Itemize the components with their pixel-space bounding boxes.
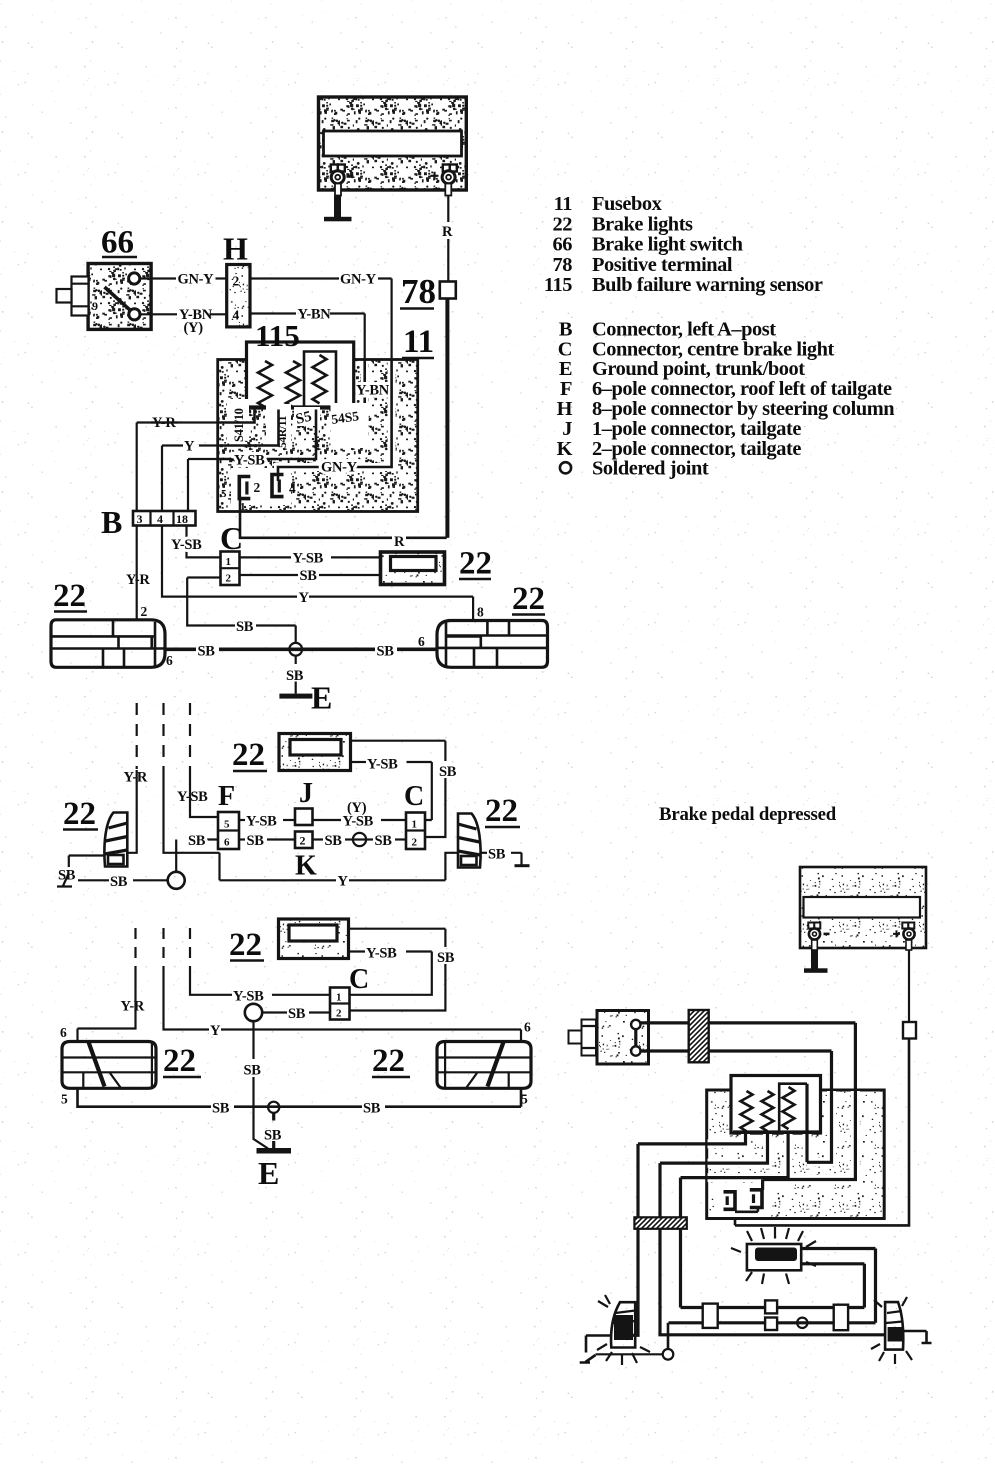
svg-text:S41/10: S41/10 xyxy=(232,408,246,442)
wire Y to connector B pin 4 xyxy=(162,439,218,512)
svg-text:2: 2 xyxy=(254,480,261,495)
svg-text:11: 11 xyxy=(403,324,434,360)
wire Y-BN H to sensor (depressed) xyxy=(709,1051,832,1162)
svg-text:SB: SB xyxy=(439,764,457,780)
battery (depressed view) xyxy=(800,867,926,948)
svg-text:Y: Y xyxy=(299,590,310,606)
svg-text:K: K xyxy=(295,851,317,882)
svg-text:SB: SB xyxy=(300,568,318,584)
wire centre lamp feed from upper bus (depressed) xyxy=(801,1264,864,1308)
bulb failure sensor 115 (depressed) xyxy=(731,1076,821,1134)
left rear lamp lit (depressed) xyxy=(597,1295,650,1365)
svg-text:5: 5 xyxy=(221,488,227,500)
svg-text:C: C xyxy=(558,338,572,360)
svg-text:Brake lights: Brake lights xyxy=(592,213,693,235)
svg-text:6: 6 xyxy=(166,653,173,668)
svg-text:2: 2 xyxy=(300,834,306,848)
svg-text:Y-SB: Y-SB xyxy=(366,946,397,962)
resistor 2 xyxy=(286,361,300,407)
svg-text:SB: SB xyxy=(110,874,128,890)
SB ground bus (bottom section) xyxy=(78,1088,522,1116)
battery / positive terminal 78 xyxy=(319,97,467,190)
soldered joint (depressed bus) xyxy=(797,1318,807,1328)
svg-text:Y-SB: Y-SB xyxy=(246,814,277,830)
wire joint up to lower bus (depressed) xyxy=(667,1323,670,1349)
wire centre lamp ground to lower bus (depressed) xyxy=(801,1249,875,1323)
centre brake light 22 (top section) xyxy=(381,546,493,585)
dashed wire Y-R continuation (bottom section) xyxy=(134,928,136,966)
svg-text:Positive terminal: Positive terminal xyxy=(592,254,733,276)
connector H (depressed) xyxy=(689,1010,709,1062)
svg-text:Y-SB: Y-SB xyxy=(367,757,398,773)
connector C (bottom section) xyxy=(330,964,369,1020)
svg-text:6–pole connector, roof left of: 6–pole connector, roof left of tailgate xyxy=(592,378,892,400)
svg-text:Y-SB: Y-SB xyxy=(234,453,265,469)
soldered joint on bottom bus xyxy=(264,1102,282,1149)
dashed wire Y-SB continuation (middle section) xyxy=(189,703,191,772)
connector B (left A-post) xyxy=(101,504,196,540)
wire R battery to fuse 78 xyxy=(442,184,453,282)
svg-text:GN-Y: GN-Y xyxy=(340,272,377,288)
svg-text:Y-R: Y-R xyxy=(121,999,145,1015)
svg-text:22: 22 xyxy=(229,927,262,963)
wire Y-SB centre lamp (middle) to C1 xyxy=(351,757,432,821)
fuse contact pair (depressed) xyxy=(724,1180,763,1212)
ground stake at battery negative xyxy=(324,184,352,222)
wire Y fusebox terminal xyxy=(218,410,279,446)
svg-text:22: 22 xyxy=(163,1043,196,1079)
svg-text:SB: SB xyxy=(212,1101,230,1117)
wire Y-BN H to fusebox xyxy=(250,307,365,360)
svg-text:B: B xyxy=(101,504,122,540)
wire Y-SB B18 to connector C pin 1 xyxy=(171,526,221,558)
connector H (8-pole, steering column) xyxy=(223,231,250,327)
centre brake light 22 (middle section) xyxy=(232,734,351,774)
soldered joint on bus xyxy=(289,643,302,656)
connector K (2-pole) xyxy=(295,832,317,882)
svg-text:SB: SB xyxy=(325,833,343,849)
wire Y-SB to C1 (bottom) xyxy=(190,977,330,1005)
resistor 3 (depressed) xyxy=(783,1087,795,1129)
svg-text:GN-Y: GN-Y xyxy=(178,272,215,288)
wire Y-BN inside fusebox xyxy=(337,359,390,443)
wire GN-Y H to fusebox xyxy=(250,272,392,360)
wire R from fuse contact to battery feed xyxy=(240,299,447,551)
wire Y B4 to right lamp pin 8 xyxy=(162,526,484,622)
connector K (depressed) xyxy=(765,1318,777,1331)
wire Y-SB F5 to J xyxy=(239,814,295,830)
svg-text:Y: Y xyxy=(184,439,195,455)
svg-text:115: 115 xyxy=(255,318,300,353)
svg-text:Soldered joint: Soldered joint xyxy=(592,458,709,480)
svg-text:F: F xyxy=(218,781,235,812)
fuse contact 2 in fusebox xyxy=(272,475,296,497)
SB ground bus (top section) xyxy=(165,634,437,668)
terminal wells xyxy=(227,399,368,448)
wire SB C2 down to ground bus xyxy=(187,578,296,644)
svg-text:H: H xyxy=(557,398,573,420)
svg-text:Brake pedal depressed: Brake pedal depressed xyxy=(659,804,837,825)
svg-text:22: 22 xyxy=(459,546,492,582)
wire SB centre lamp ground drop (bottom) xyxy=(244,1021,269,1148)
dashed wire Y continuation (bottom section) xyxy=(162,928,164,972)
svg-text:22: 22 xyxy=(372,1043,405,1079)
ground point E (top section) xyxy=(279,656,332,716)
soldered joint circle (middle) xyxy=(168,872,185,889)
left brake light 22 (top section) xyxy=(51,578,165,667)
connector F (depressed) xyxy=(703,1304,718,1328)
right side lamp 22 (middle section) xyxy=(458,793,520,868)
wire right lamp to chassis ground (depressed) xyxy=(903,1331,932,1343)
svg-text:SB: SB xyxy=(247,833,265,849)
fuse contact 1 in fusebox xyxy=(221,477,261,514)
resistor 1 xyxy=(258,361,272,407)
svg-text:Brake light switch: Brake light switch xyxy=(592,234,744,256)
white clearance for fusebox wires (depressed) xyxy=(708,1091,856,1217)
centre brake light 22 (bottom section) xyxy=(229,919,349,963)
svg-text:C: C xyxy=(404,781,424,812)
svg-text:E: E xyxy=(559,358,572,380)
wire Y mirror to right rear lamp (depressed) xyxy=(660,1133,885,1335)
ground point E (bottom section) xyxy=(257,1148,292,1191)
connector C (depressed) xyxy=(834,1305,848,1331)
svg-text:6: 6 xyxy=(224,837,230,849)
svg-text:78: 78 xyxy=(401,272,436,311)
svg-text:R: R xyxy=(442,224,453,240)
wire GN-Y H to fusebox (depressed) xyxy=(709,1023,856,1180)
connector J (1-pole) xyxy=(295,778,313,825)
svg-text:4: 4 xyxy=(233,308,240,323)
fuse 78 xyxy=(400,272,456,311)
wire Y-SB J to C1 (middle) xyxy=(313,800,407,830)
wire Y-SB C1 to centre brake light xyxy=(240,551,381,567)
centre brake light lit (depressed) xyxy=(731,1227,816,1284)
svg-text:R: R xyxy=(394,534,405,550)
svg-text:SB: SB xyxy=(288,1006,306,1022)
wire SB ground to joint (depressed) xyxy=(596,1353,663,1355)
svg-text:C: C xyxy=(349,964,369,995)
svg-text:SB: SB xyxy=(377,644,395,660)
svg-text:Y-SB: Y-SB xyxy=(171,537,202,553)
svg-text:Connector, centre brake light: Connector, centre brake light xyxy=(592,338,834,360)
wire SB centre lamp (middle) down right side xyxy=(351,741,457,837)
wire SB right lamp to chassis ground (middle) xyxy=(481,847,530,868)
svg-text:Y-SB: Y-SB xyxy=(233,989,264,1005)
wire Y-SB to connector F pin 5 xyxy=(177,772,218,817)
svg-text:Bulb failure warning sensor: Bulb failure warning sensor xyxy=(592,274,823,296)
wire SB joint to C2 (bottom) xyxy=(262,1006,330,1022)
svg-text:SB: SB xyxy=(188,833,206,849)
right rear lamp lit (depressed) xyxy=(871,1297,912,1364)
bulb failure warning sensor 115 xyxy=(247,318,354,408)
svg-text:22: 22 xyxy=(53,578,86,614)
fuse (depressed) xyxy=(903,1022,916,1039)
svg-text:Connector, left A–post: Connector, left A–post xyxy=(592,318,776,340)
connector C (centre brake light) xyxy=(220,520,243,585)
wire Y-BN switch to H xyxy=(140,307,227,336)
wire Y across to right lamp pin 6 (bottom) xyxy=(164,972,532,1041)
wire switch to H (depressed) xyxy=(641,1023,689,1051)
svg-text:22: 22 xyxy=(512,581,545,617)
svg-text:Y-BN: Y-BN xyxy=(298,307,332,323)
right brake light 22 (bottom section) xyxy=(372,1042,531,1107)
svg-text:Fusebox: Fusebox xyxy=(592,193,663,215)
lower bus SB (depressed) xyxy=(669,1321,876,1324)
wire Y-R to left lamp pin 6 (bottom) xyxy=(60,966,145,1042)
svg-text:1: 1 xyxy=(336,992,342,1004)
svg-text:SB: SB xyxy=(236,619,254,635)
wire Y-SB to connector B pin 18 xyxy=(188,459,218,511)
wire Y-R mirror to left rear lamp (depressed) xyxy=(630,1133,745,1336)
legend component list xyxy=(544,193,895,480)
resistor 2 (depressed) xyxy=(762,1091,774,1131)
svg-text:Y-SB: Y-SB xyxy=(177,789,208,805)
svg-text:Y-R: Y-R xyxy=(126,572,150,588)
svg-text:Ground point, trunk/boot: Ground point, trunk/boot xyxy=(592,358,805,380)
svg-text:Y-SB: Y-SB xyxy=(293,551,324,567)
connector J (depressed) xyxy=(765,1300,777,1313)
svg-text:8: 8 xyxy=(477,605,484,620)
wire Y-R fusebox terminal xyxy=(218,410,255,423)
svg-text:1–pole connector, tailgate: 1–pole connector, tailgate xyxy=(592,418,801,440)
connector F (6-pole) xyxy=(218,781,239,849)
svg-text:SB: SB xyxy=(363,1101,381,1117)
wire Y-SB mirror to centre bus (depressed) xyxy=(681,1133,789,1308)
wire SB centre lamp (bottom) down right side xyxy=(349,929,455,1011)
wire Y-R pin 2 into left lamp xyxy=(126,526,150,620)
dashed wire Y continuation (middle section) xyxy=(162,703,164,768)
svg-text:3: 3 xyxy=(137,512,143,526)
svg-text:1: 1 xyxy=(226,556,232,568)
wire SB ground to joint circle (middle) xyxy=(78,874,168,890)
svg-text:1: 1 xyxy=(412,819,418,831)
wire SB left lamp to chassis ground (middle) xyxy=(57,856,105,887)
svg-text:18: 18 xyxy=(176,512,188,526)
wire GN-Y switch to H xyxy=(140,272,227,288)
wire Y-R to connector B pin 3 xyxy=(137,415,218,511)
brake light switch (depressed, closed) xyxy=(569,1011,649,1065)
left brake light 22 (bottom section) xyxy=(61,1042,201,1107)
svg-text:K: K xyxy=(557,438,573,460)
svg-text:22: 22 xyxy=(232,737,265,773)
svg-text:6: 6 xyxy=(418,634,425,649)
svg-text:SB: SB xyxy=(375,833,393,849)
right brake light 22 (top section) xyxy=(437,581,548,667)
svg-text:(Y): (Y) xyxy=(184,320,204,336)
wire R fuse to fusebox xyxy=(447,299,449,538)
resistor 3 xyxy=(313,355,327,403)
fusebox 11 body xyxy=(218,360,418,512)
svg-text:9: 9 xyxy=(92,299,98,313)
connector B bar (depressed) xyxy=(634,1217,686,1229)
svg-text:Y-SB: Y-SB xyxy=(343,814,374,830)
svg-text:22: 22 xyxy=(553,213,573,235)
svg-text:22: 22 xyxy=(63,796,96,832)
svg-text:B: B xyxy=(559,318,573,340)
wire Y-SB centre lamp (bottom) to C1 xyxy=(349,946,432,995)
left side lamp 22 (middle section) xyxy=(63,796,127,867)
connector C (middle section) xyxy=(404,781,425,849)
label 11 fusebox xyxy=(402,324,434,360)
svg-text:J: J xyxy=(299,778,313,809)
svg-text:2: 2 xyxy=(226,573,232,585)
svg-text:66: 66 xyxy=(101,225,134,261)
svg-text:Y: Y xyxy=(338,874,349,890)
svg-text:Y: Y xyxy=(210,1023,221,1039)
sensor inner frame xyxy=(304,352,336,408)
svg-text:8–pole connector by steering c: 8–pole connector by steering column xyxy=(592,398,895,420)
svg-text:66: 66 xyxy=(553,234,573,256)
dashed wire Y-SB continuation (bottom section) xyxy=(189,928,191,977)
wire SB K to soldered joint to C2 (middle) xyxy=(313,833,407,849)
resistor 1 (depressed) xyxy=(741,1091,753,1131)
svg-text:E: E xyxy=(311,680,332,716)
svg-text:6: 6 xyxy=(524,1020,531,1035)
wire Y down and across to right lamp (middle section) xyxy=(164,768,459,890)
svg-text:2–pole connector, tailgate: 2–pole connector, tailgate xyxy=(592,438,801,460)
svg-text:2: 2 xyxy=(233,274,240,289)
upper bus Y-SB (depressed) xyxy=(681,1306,865,1309)
dashed wire Y-R continuation (middle section) xyxy=(136,703,138,766)
svg-text:2: 2 xyxy=(336,1008,342,1020)
svg-text:78: 78 xyxy=(553,254,573,276)
wire Y-SB fusebox terminal xyxy=(218,410,316,469)
svg-text:2: 2 xyxy=(412,837,418,849)
svg-text:SB: SB xyxy=(437,950,455,966)
svg-text:J: J xyxy=(562,418,572,440)
svg-text:GN-Y: GN-Y xyxy=(321,460,358,476)
svg-text:2: 2 xyxy=(141,604,148,619)
wire SB F6 to ground joint (middle) xyxy=(176,833,218,872)
wire SB F6 to K xyxy=(239,833,295,849)
fusebox (depressed) xyxy=(707,1090,885,1219)
svg-text:115: 115 xyxy=(544,274,572,296)
svg-text:Y-BN: Y-BN xyxy=(356,383,390,399)
svg-text:SB: SB xyxy=(244,1063,262,1079)
svg-text:5: 5 xyxy=(224,819,230,831)
svg-text:E: E xyxy=(258,1155,279,1191)
svg-text:H: H xyxy=(223,231,248,267)
wire Y-R to left side lamp (middle section) xyxy=(124,766,148,853)
svg-text:SB: SB xyxy=(198,644,216,660)
wire GN-Y inside fusebox xyxy=(278,359,392,481)
wire R fuse down to fusebox (depressed) xyxy=(735,1039,909,1226)
svg-text:F: F xyxy=(560,378,572,400)
svg-text:6: 6 xyxy=(60,1025,67,1040)
brake light switch 66 xyxy=(57,225,152,330)
ground stake at battery negative (depressed) xyxy=(804,940,828,973)
svg-text:11: 11 xyxy=(554,193,573,215)
wire SB C2 to centre brake light xyxy=(240,568,381,584)
svg-text:SB: SB xyxy=(488,847,506,863)
wire R to fuse (depressed) xyxy=(906,940,912,1022)
svg-text:22: 22 xyxy=(485,793,518,829)
wire left lamp to chassis ground (depressed) xyxy=(580,1336,612,1363)
svg-text:4: 4 xyxy=(289,481,296,496)
white clearance for fusebox wires xyxy=(240,361,392,510)
soldered joint circle (depressed ground) xyxy=(663,1349,674,1360)
soldered joint circle (bottom) xyxy=(245,1004,262,1021)
svg-text:5: 5 xyxy=(61,1092,68,1107)
svg-text:4: 4 xyxy=(157,512,163,526)
